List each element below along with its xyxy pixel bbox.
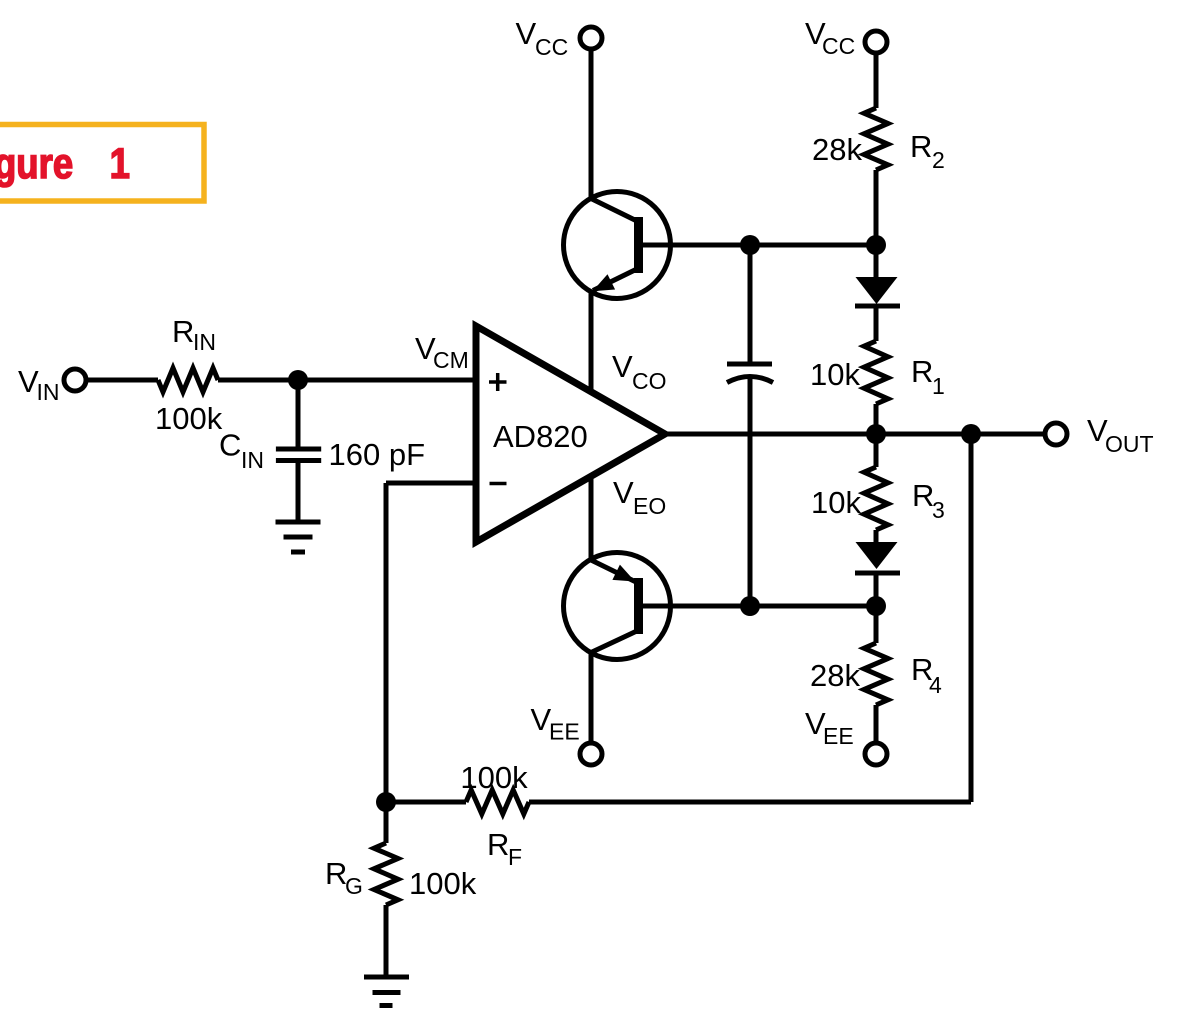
wire R1 to output line bbox=[874, 404, 879, 434]
wire compensation cap bottom bbox=[748, 377, 753, 606]
svg-text:100k: 100k bbox=[409, 866, 477, 901]
node VCM label bbox=[415, 331, 469, 373]
node R2 diode junction bbox=[866, 235, 886, 255]
node base bottom junction bbox=[740, 596, 760, 616]
ground under RG bbox=[364, 977, 409, 1006]
svg-text:V: V bbox=[612, 349, 633, 384]
svg-text:EE: EE bbox=[823, 723, 854, 749]
node base top junction bbox=[740, 235, 760, 255]
svg-text:IN: IN bbox=[193, 329, 216, 355]
wire output to R3 bbox=[874, 434, 879, 467]
ground under CIN bbox=[276, 522, 321, 552]
resistor R1 bbox=[810, 341, 945, 404]
resistor R2 bbox=[812, 108, 945, 173]
node input junction bbox=[288, 370, 308, 390]
svg-text:OUT: OUT bbox=[1105, 431, 1154, 457]
svg-text:F: F bbox=[508, 844, 522, 870]
terminal VEE right bbox=[805, 706, 887, 765]
resistor RG bbox=[325, 843, 477, 905]
svg-text:R: R bbox=[487, 827, 509, 862]
wire feedback down bbox=[969, 434, 974, 802]
wire feedback left to RF bbox=[529, 800, 971, 805]
svg-text:Figure 1: Figure 1 bbox=[0, 140, 130, 187]
svg-text:1: 1 bbox=[932, 373, 945, 399]
svg-text:C: C bbox=[219, 428, 241, 463]
svg-text:V: V bbox=[516, 16, 537, 51]
wire RIN to opamp plus input bbox=[218, 378, 476, 383]
diode D2 bbox=[855, 542, 900, 573]
svg-text:10k: 10k bbox=[811, 485, 861, 520]
resistor RF bbox=[460, 760, 529, 870]
terminal VEE left bbox=[531, 702, 603, 765]
wire opamp output bbox=[663, 432, 1045, 437]
wire compensation cap top bbox=[748, 245, 753, 362]
wire R4 to VEE bbox=[874, 705, 879, 741]
svg-text:100k: 100k bbox=[460, 760, 528, 795]
terminal VCC right bbox=[805, 16, 887, 59]
diode D1 bbox=[855, 277, 900, 306]
svg-text:28k: 28k bbox=[810, 658, 860, 693]
op-amp U1 AD820 bbox=[476, 326, 665, 542]
wire RG to ground bbox=[384, 905, 389, 977]
svg-text:R: R bbox=[172, 314, 194, 349]
svg-text:28k: 28k bbox=[812, 132, 862, 167]
resistor R4 bbox=[810, 643, 942, 705]
transistor Q1 bbox=[564, 192, 671, 299]
svg-text:V: V bbox=[613, 475, 634, 510]
svg-text:CC: CC bbox=[822, 33, 855, 59]
resistor R3 bbox=[811, 467, 945, 530]
node R3 R4 junction bbox=[866, 596, 886, 616]
node output feedback junction bbox=[961, 424, 981, 444]
svg-text:160 pF: 160 pF bbox=[329, 437, 426, 472]
wire junction down to CIN bbox=[296, 380, 301, 447]
resistor RIN bbox=[155, 314, 223, 436]
wire R3 to D2 bbox=[874, 530, 879, 545]
wire Q1 base line bbox=[641, 243, 876, 248]
node VEO wire opamp bottom edge to Q2 bbox=[589, 475, 594, 560]
wire Q2 base line bbox=[641, 604, 876, 609]
svg-text:R: R bbox=[910, 129, 932, 164]
wire VIN to RIN bbox=[88, 378, 158, 383]
wire Q2 collector to VEE bbox=[589, 652, 594, 741]
figure label box bbox=[0, 125, 204, 202]
svg-text:CO: CO bbox=[632, 368, 667, 394]
svg-text:IN: IN bbox=[37, 379, 60, 405]
capacitor CIN bbox=[219, 428, 425, 474]
wire RF to feedback node bbox=[386, 800, 466, 805]
svg-text:100k: 100k bbox=[155, 401, 223, 436]
wire D2 to junction bbox=[874, 575, 879, 606]
wire junction to D1 bbox=[874, 245, 879, 280]
svg-text:4: 4 bbox=[929, 672, 942, 698]
svg-text:IN: IN bbox=[241, 447, 264, 473]
node R1 R3 output junction bbox=[866, 424, 886, 444]
wire junction to R4 bbox=[874, 606, 879, 643]
wire node to RG bbox=[384, 802, 389, 843]
wire opamp minus input to feedback column bbox=[386, 481, 476, 486]
transistor Q2 bbox=[564, 553, 671, 660]
terminal VOUT bbox=[1045, 413, 1154, 457]
svg-text:EE: EE bbox=[549, 719, 580, 745]
svg-text:10k: 10k bbox=[810, 357, 860, 392]
svg-text:CM: CM bbox=[433, 347, 469, 373]
wire VCC to R2 bbox=[874, 54, 879, 108]
terminal VIN bbox=[18, 364, 86, 405]
svg-text:R: R bbox=[911, 354, 933, 389]
wire D1 to R1 bbox=[874, 308, 879, 341]
terminal VCC left bbox=[516, 16, 603, 60]
wire Q1 collector to VCC bbox=[589, 51, 594, 199]
svg-text:3: 3 bbox=[932, 497, 945, 523]
svg-text:AD820: AD820 bbox=[493, 419, 588, 454]
node VCO wire opamp top edge to Q1 bbox=[589, 292, 594, 392]
svg-text:2: 2 bbox=[932, 147, 945, 173]
wire R2 to junction bbox=[874, 170, 879, 245]
svg-text:CC: CC bbox=[535, 34, 568, 60]
svg-text:G: G bbox=[345, 873, 363, 899]
node feedback junction bbox=[376, 792, 396, 812]
wire CIN to ground bbox=[296, 463, 301, 522]
svg-text:EO: EO bbox=[633, 493, 666, 519]
capacitor C1 compensation bbox=[727, 364, 773, 383]
